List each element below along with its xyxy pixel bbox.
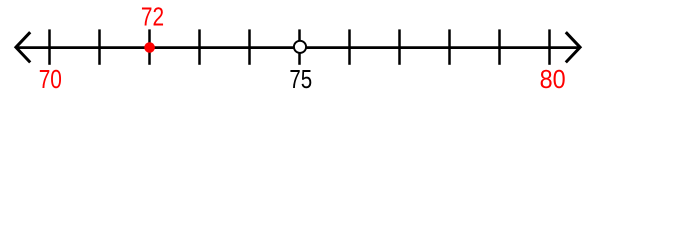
tick 78 xyxy=(448,29,451,64)
tick 74 xyxy=(248,29,251,64)
tick 71 xyxy=(98,29,101,64)
filled red point at 72 xyxy=(144,42,155,53)
left arrowhead xyxy=(16,32,30,62)
tick 73 xyxy=(198,29,201,64)
open circle at 75 xyxy=(294,41,306,53)
svg-text:72: 72 xyxy=(141,2,164,32)
tick 75 xyxy=(298,29,301,64)
svg-text:70: 70 xyxy=(39,64,62,94)
svg-text:80: 80 xyxy=(540,64,566,94)
tick 72 xyxy=(148,29,151,64)
tick 77 xyxy=(398,29,401,64)
wire: main horizontal number line xyxy=(17,46,580,49)
tick 80 xyxy=(548,29,551,64)
svg-text:75: 75 xyxy=(289,64,312,94)
number line diagram 70 to 80 xyxy=(0,0,700,100)
tick 76 xyxy=(348,29,351,64)
tick 70 xyxy=(48,29,51,64)
right arrowhead xyxy=(566,32,580,62)
tick 79 xyxy=(498,29,501,64)
